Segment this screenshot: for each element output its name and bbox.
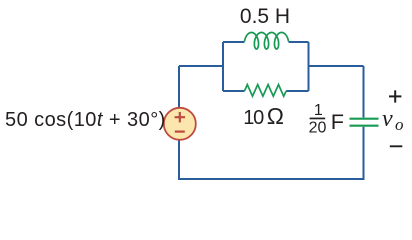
svg-text:Ω: Ω bbox=[267, 103, 284, 129]
svg-text:10: 10 bbox=[243, 107, 264, 129]
svg-text:50 cos(10t + 30°): 50 cos(10t + 30°) bbox=[5, 109, 166, 131]
svg-text:o: o bbox=[395, 115, 404, 134]
svg-text:0.5 H: 0.5 H bbox=[240, 5, 290, 28]
svg-text:v: v bbox=[382, 106, 393, 132]
svg-text:20: 20 bbox=[309, 120, 327, 137]
svg-text:1: 1 bbox=[314, 102, 323, 119]
svg-text:F: F bbox=[331, 109, 344, 134]
